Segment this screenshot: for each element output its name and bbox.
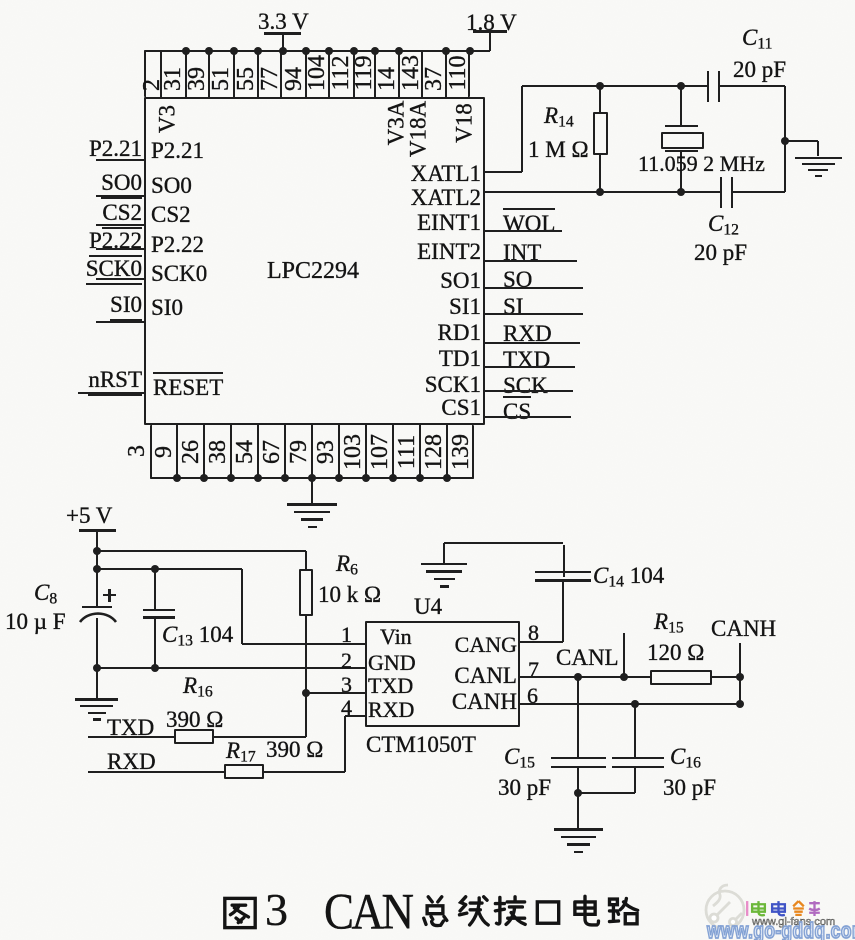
net label SI (right) xyxy=(503,295,523,319)
pin number 4 xyxy=(341,697,352,720)
net label RXD (MCU) xyxy=(107,750,156,774)
3.3V supply bar xyxy=(264,32,301,35)
capacitor C15 top lead xyxy=(577,677,579,757)
label R15 xyxy=(654,610,684,637)
pin label SCK0 (inside) xyxy=(151,262,207,286)
capacitor C11 left plate xyxy=(707,71,710,102)
label R14 xyxy=(544,104,574,131)
caption: 接 xyxy=(492,894,528,930)
junction on 3.3V bus xyxy=(325,47,333,55)
caption: 线 xyxy=(455,894,491,930)
bottom pin divider 7 xyxy=(338,425,340,479)
pin name V18A (rotated) xyxy=(407,101,430,157)
net label nRST (outside) xyxy=(88,368,142,396)
wire GND rail / U4 pin2 xyxy=(97,667,366,669)
IC label LPC2294 xyxy=(267,259,359,284)
junction C15 ground xyxy=(574,789,582,797)
value C11 20 pF xyxy=(733,58,786,82)
watermark logo circle xyxy=(703,882,749,936)
junction +5V rail1 xyxy=(93,547,101,555)
pin number 77 (top) xyxy=(258,67,282,91)
pin number 31 (top) xyxy=(161,67,185,91)
junction crystal bottom xyxy=(677,188,685,196)
junction R14 top xyxy=(596,82,604,90)
wire osc ground drop xyxy=(817,141,819,156)
top pin divider 11 xyxy=(398,50,400,97)
ground (IC bottom) xyxy=(287,503,337,506)
crystal Y1 bottom lead xyxy=(680,152,682,192)
pin label CS1 (inside right) xyxy=(441,396,481,420)
wire ground drop (C15/C16) xyxy=(577,793,579,829)
pin label TD1 (inside right) xyxy=(439,347,481,371)
wire TXD a xyxy=(88,736,174,738)
net label TXD (right) xyxy=(503,348,550,372)
resistor R16 body xyxy=(174,729,214,744)
junction on 3.3V bus xyxy=(205,47,213,55)
junction C13 top xyxy=(151,565,159,573)
value R6 10 k ohm xyxy=(318,583,381,607)
junction R14 bottom xyxy=(596,188,604,196)
wire SI xyxy=(485,313,583,315)
capacitor C16 bottom lead xyxy=(634,768,636,793)
top pin divider 9 xyxy=(353,50,355,97)
value C16 30 pF xyxy=(663,776,716,800)
wire rail2 drop xyxy=(241,569,243,645)
pin label CANH xyxy=(452,690,517,714)
top pin divider 3 xyxy=(208,50,210,97)
watermark colored glyph 2 xyxy=(750,900,767,917)
junction C8 gnd rail xyxy=(93,664,101,672)
wire R6 bottom lead xyxy=(305,616,307,737)
resistor R14 bottom lead xyxy=(599,155,601,192)
junction on bottom bus xyxy=(335,474,343,482)
wire P2.21 stub xyxy=(96,159,144,161)
pin number 3 (bottom, outside) xyxy=(125,445,149,457)
value C15 30 pF xyxy=(498,776,551,800)
net label RXD (right) xyxy=(503,322,552,346)
wire CS xyxy=(485,416,571,418)
label R17 xyxy=(226,739,256,766)
pin name V3 (rotated) xyxy=(156,105,179,133)
junction osc ground tap xyxy=(781,137,789,145)
label C14 104 xyxy=(593,564,664,591)
bottom pin divider 10 xyxy=(419,425,421,479)
top pin divider 8 xyxy=(328,50,330,97)
junction on 3.3V bus xyxy=(395,47,403,55)
wire C8 bottom xyxy=(96,618,98,698)
junction on 3.3V bus xyxy=(182,47,190,55)
junction on bottom bus xyxy=(308,474,316,482)
IC U4 body xyxy=(365,621,520,727)
crystal Y1 body xyxy=(661,132,704,149)
wire TXD b xyxy=(214,736,306,738)
net label SCK0 (left outside) xyxy=(86,257,142,285)
wire +5V rail2 xyxy=(97,568,243,570)
label C11 xyxy=(742,26,772,53)
junction on bottom bus xyxy=(281,474,289,482)
pin number 2 xyxy=(341,650,352,673)
1.8V supply bar xyxy=(473,30,507,33)
pin number 143 (top) xyxy=(399,55,423,91)
resistor R15 body xyxy=(650,670,712,685)
pin number 1 xyxy=(341,624,352,647)
value 11.0592 MHz xyxy=(638,153,765,176)
wire osc right xyxy=(784,86,786,192)
wire RXD riser xyxy=(344,716,346,772)
bottom pin divider 2 xyxy=(203,425,205,479)
pin number 14 (top) xyxy=(375,67,399,91)
net label P2.21 (left outside) xyxy=(89,137,142,161)
net label SI0 (left outside) xyxy=(110,293,142,321)
junction on 3.3V bus xyxy=(350,47,358,55)
bottom pin divider 3 xyxy=(230,425,232,479)
pin label SI0 (inside) xyxy=(151,296,183,320)
pin number 26 (bottom) xyxy=(179,440,203,464)
capacitor C14 top plate xyxy=(535,571,591,574)
pin number 51 (top) xyxy=(209,67,233,91)
bottom pin divider 1 xyxy=(176,425,178,479)
capacitor C16 top plate xyxy=(612,757,664,760)
junction C16 tap xyxy=(631,700,639,708)
pin number 103 (bottom) xyxy=(341,434,365,470)
value C12 20 pF xyxy=(694,241,747,265)
pin label RXD xyxy=(368,699,414,722)
resistor R14 top lead xyxy=(599,86,601,112)
net label CS (right) xyxy=(503,396,531,424)
bottom pin divider 9 xyxy=(392,425,394,479)
net label P2.22 (left outside) xyxy=(89,229,142,257)
bottom pin divider 11 xyxy=(446,425,448,479)
caption: 电 xyxy=(567,894,603,930)
pin number 37 (top) xyxy=(422,67,446,91)
net label CS2 (left outside) xyxy=(102,201,142,229)
wire XATL1 riser xyxy=(521,86,523,172)
ground (CAN filter) xyxy=(554,828,603,831)
IC label CTM1050T xyxy=(366,733,476,757)
IC ground stub xyxy=(311,479,313,504)
top pin divider 12 xyxy=(421,50,423,97)
resistor R6 body xyxy=(299,569,313,616)
label C16 xyxy=(670,745,701,772)
junction 1.8V bus a xyxy=(442,47,450,55)
wire U4 pin4 RXD xyxy=(345,715,365,717)
wire RXD a xyxy=(88,771,224,773)
pin label EINT1 (inside right) xyxy=(417,211,481,235)
power rail +5V label xyxy=(66,504,112,528)
wire TXD xyxy=(485,366,575,368)
wire U4 pin3 TXD xyxy=(306,692,365,694)
+5V supply bar xyxy=(79,529,116,532)
pin number 104 (top) xyxy=(305,55,329,91)
pin number 111 (bottom) xyxy=(395,435,419,469)
capacitor C15 top plate xyxy=(551,757,606,760)
bottom pin divider 6 xyxy=(311,425,313,479)
junction CANL terminal xyxy=(620,673,628,681)
wire CANH terminal xyxy=(739,643,741,704)
pin label GND xyxy=(368,652,416,675)
pin number 38 (bottom) xyxy=(206,440,230,464)
label C8 xyxy=(34,581,57,608)
capacitor C16 bottom plate xyxy=(612,766,664,769)
wire C14 to ground xyxy=(444,542,563,544)
pin label EINT2 (inside right) xyxy=(417,240,481,264)
wire C15-C16 join xyxy=(578,792,635,794)
wire osc top a xyxy=(522,85,707,87)
pin label Vin xyxy=(380,626,412,649)
watermark colored glyph 1 xyxy=(744,900,761,917)
label R6 xyxy=(336,552,358,579)
wire rail1 drop to R6 xyxy=(305,551,307,569)
pin number 8 xyxy=(528,622,539,645)
junction on bottom bus xyxy=(200,474,208,482)
pin name V18 (rotated) xyxy=(453,103,476,143)
junction on 3.3V bus xyxy=(230,47,238,55)
pin number 9 (bottom) xyxy=(152,446,176,458)
junction +5V rail2 xyxy=(93,565,101,573)
pin number 7 xyxy=(528,659,539,682)
pin label SO0 (inside) xyxy=(151,174,192,198)
pin label XATL2 (inside right) xyxy=(411,186,481,210)
capacitor C8 curved plate xyxy=(78,611,118,627)
wire bus to 1.8V xyxy=(470,50,490,52)
wire SO xyxy=(485,287,583,289)
junction R6/TXD pin3 xyxy=(302,689,310,697)
pin label CANG xyxy=(455,634,517,657)
capacitor C13 bottom lead xyxy=(154,619,156,668)
top pin divider 10 xyxy=(374,50,376,97)
junction on 3.3V bus xyxy=(254,47,262,55)
junction on bottom bus xyxy=(362,474,370,482)
crystal Y1 top plate xyxy=(665,125,698,128)
watermark small gray url xyxy=(752,917,835,928)
junction on bottom bus xyxy=(254,474,262,482)
pin number 119 (top) xyxy=(352,55,376,90)
junction on bottom bus xyxy=(227,474,235,482)
value R16 390 ohm xyxy=(166,708,223,732)
junction on 3.3V bus xyxy=(302,47,310,55)
net label CANH xyxy=(711,617,776,641)
pin label P2.21 (inside) xyxy=(151,139,204,163)
junction on bottom bus xyxy=(443,474,451,482)
1.8V stub wire xyxy=(489,31,491,51)
pin number 128 (bottom) xyxy=(422,434,446,470)
ground (C8) xyxy=(75,698,118,701)
label C13 104 xyxy=(162,623,233,650)
pin number 110 (top) xyxy=(446,55,470,90)
wire SCK xyxy=(485,390,573,392)
capacitor C15 bottom lead xyxy=(577,768,579,793)
pin label SO1 (inside right) xyxy=(440,269,481,293)
label C12 xyxy=(708,212,739,239)
wire osc ground tap xyxy=(785,140,818,142)
label C15 xyxy=(504,745,535,772)
pin number 79 (bottom) xyxy=(287,440,311,464)
wire osc bottom b xyxy=(733,191,785,193)
pin number 54 (bottom) xyxy=(233,440,257,464)
pin label SI1 (inside right) xyxy=(449,295,481,319)
wire SCK0 stub xyxy=(96,278,144,280)
junction CANH/R15 xyxy=(736,673,744,681)
ground (C14) xyxy=(421,563,467,566)
pin label RESET (inside, active low) xyxy=(153,372,223,400)
pin label CANL xyxy=(454,664,517,688)
watermark colored glyph 3 xyxy=(770,900,787,917)
junction crystal top xyxy=(677,82,685,90)
pin number 67 (bottom) xyxy=(260,440,284,464)
power rail 3.3V label xyxy=(258,10,309,34)
pin number 107 (bottom) xyxy=(368,434,392,470)
watermark colored glyph 4 xyxy=(790,900,807,917)
wire CANL terminal xyxy=(623,633,625,677)
net label SO (right) xyxy=(503,268,532,292)
IC U1 LPC2294 body xyxy=(144,97,485,425)
capacitor C12 right plate xyxy=(731,177,734,208)
wire +5V rail1 xyxy=(97,550,307,552)
capacitor C13 top lead xyxy=(154,569,156,610)
pin number 112 (top) xyxy=(329,55,353,90)
bottom pin row box xyxy=(150,425,474,479)
value R15 120 ohm xyxy=(647,641,704,665)
top pin divider 2 xyxy=(185,50,187,97)
capacitor C16 top lead xyxy=(634,704,636,758)
caption: 口 xyxy=(530,894,566,930)
junction 1.8V bus b xyxy=(466,47,474,55)
value 1 M ohm xyxy=(528,138,589,162)
capacitor C13 top plate xyxy=(143,609,175,612)
caption: 图 xyxy=(222,895,258,931)
resistor R17 body xyxy=(224,764,264,779)
pin number 55 (top) xyxy=(234,67,258,91)
capacitor C8 plus sign xyxy=(103,594,116,596)
top pin divider 1 xyxy=(160,50,162,97)
capacitor C14 bottom plate xyxy=(535,579,591,582)
top pin divider 5 xyxy=(257,50,259,97)
wire SI0 stub xyxy=(96,321,144,323)
crystal Y1 bottom plate xyxy=(665,150,698,153)
pin number 3 xyxy=(341,674,352,697)
wire CS2 stub xyxy=(96,224,144,226)
bottom pin divider 5 xyxy=(284,425,286,479)
pin number 93 (bottom) xyxy=(314,440,338,464)
wire XATL2 / osc bottom a xyxy=(485,191,720,193)
junction C13 bottom xyxy=(151,664,159,672)
pin number 94 (top) xyxy=(282,67,306,91)
bottom pin divider 4 xyxy=(257,425,259,479)
value C8 10 uF xyxy=(5,610,66,634)
pin label RD1 (inside right) xyxy=(438,321,481,345)
capacitor C8 top plate xyxy=(82,606,112,609)
net label CANL xyxy=(556,646,619,670)
wire WOL xyxy=(485,230,562,232)
wire osc top b xyxy=(720,85,785,87)
junction 3.3V stub xyxy=(279,47,287,55)
top pin divider 13 xyxy=(445,50,447,97)
junction on 3.3V bus xyxy=(371,47,379,55)
wire P2.22 stub xyxy=(96,248,144,250)
capacitor C13 bottom plate xyxy=(143,616,175,619)
net label WOL (right) xyxy=(503,208,555,236)
wire U4 pin6 CANH xyxy=(520,703,740,705)
caption: 3 xyxy=(265,886,288,934)
wire SO0 stub xyxy=(96,195,144,197)
pin number 6 xyxy=(527,685,538,708)
junction on bottom bus xyxy=(389,474,397,482)
bottom pin divider 8 xyxy=(365,425,367,479)
label U4 xyxy=(414,595,442,619)
resistor R14 body xyxy=(593,112,608,155)
pin name V3A (rotated) xyxy=(385,101,408,146)
wire INT xyxy=(485,260,577,262)
wire RXD xyxy=(485,342,580,344)
caption: CAN xyxy=(324,886,412,938)
pin number 139 (bottom) xyxy=(449,434,473,470)
value R17 390 ohm xyxy=(266,738,323,762)
junction CANH/pin6 xyxy=(736,700,744,708)
capacitor C12 left plate xyxy=(720,177,723,208)
top pin row box xyxy=(144,50,470,97)
capacitor C14 bottom lead xyxy=(562,581,564,642)
crystal Y1 top lead xyxy=(680,86,682,125)
pin label CS2 (inside) xyxy=(151,203,191,227)
wire R15 to CANH xyxy=(712,676,740,678)
wire ground drop (C14) xyxy=(443,543,445,564)
capacitor C15 bottom plate xyxy=(551,766,606,769)
top pin divider 6 xyxy=(280,50,282,97)
net label SCK (right) xyxy=(503,374,548,398)
wire U4 pin7 CANL a xyxy=(520,676,652,678)
caption: 路 xyxy=(605,894,641,930)
ground (oscillator) xyxy=(795,157,842,160)
pin label SCK1 (inside right) xyxy=(425,373,481,397)
capacitor C11 right plate xyxy=(718,71,721,102)
watermark colored glyph 5 xyxy=(806,900,823,917)
wire U4 pin1 Vin xyxy=(242,643,365,645)
pin number 2 (top) xyxy=(140,79,164,91)
net label SO0 (left outside) xyxy=(101,171,142,199)
net label INT (right) xyxy=(503,241,541,265)
pin label XATL1 (inside right) xyxy=(411,162,481,186)
wire nRST stub xyxy=(78,392,144,394)
power rail 1.8V label xyxy=(466,11,517,35)
wire U4 pin8 CANG xyxy=(520,641,563,643)
top pin divider 4 xyxy=(233,50,235,97)
top pin divider 7 xyxy=(305,50,307,97)
wire RXD b xyxy=(264,771,345,773)
wire XATL1 out xyxy=(485,171,522,173)
wire +5V drop xyxy=(96,531,98,606)
junction C15 tap xyxy=(574,673,582,681)
watermark blue url xyxy=(707,920,855,940)
capacitor C14 top lead xyxy=(563,545,565,577)
junction on bottom bus xyxy=(173,474,181,482)
label R16 xyxy=(183,674,213,701)
pin label TXD xyxy=(368,675,413,698)
caption: 总 xyxy=(417,894,453,930)
pin label P2.22 (inside) xyxy=(151,233,204,257)
net label TXD (MCU) xyxy=(107,716,154,740)
pin number 39 (top) xyxy=(185,67,209,91)
3.3V stub wire xyxy=(282,33,284,50)
junction on bottom bus xyxy=(416,474,424,482)
